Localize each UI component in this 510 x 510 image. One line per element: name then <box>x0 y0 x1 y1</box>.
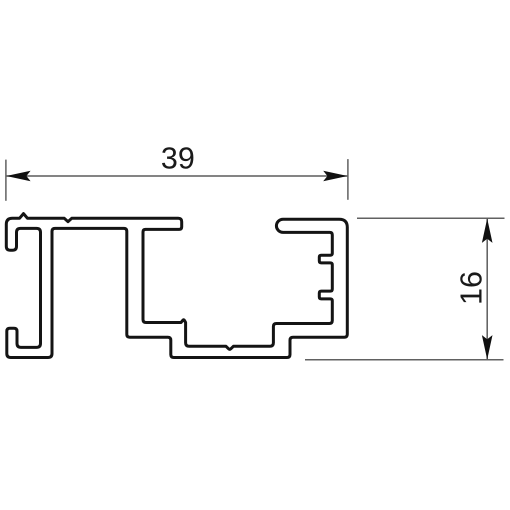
profile outline (aluminium extrusion cross-section) <box>6 214 347 358</box>
arrowhead down (16) <box>482 335 493 359</box>
arrowhead up (16) <box>482 219 493 243</box>
arrowhead right (39) <box>323 171 347 182</box>
extension line left (39) <box>5 160 7 201</box>
dimension line 16 <box>486 219 488 360</box>
extension line top (16) <box>357 217 505 219</box>
svg-text:39: 39 <box>161 142 195 176</box>
extension line bottom (16) <box>305 359 504 361</box>
arrowhead left (39) <box>6 171 30 182</box>
dimension line 39 <box>6 175 347 177</box>
svg-text:16: 16 <box>454 271 488 305</box>
extension line right (39) <box>347 159 349 200</box>
